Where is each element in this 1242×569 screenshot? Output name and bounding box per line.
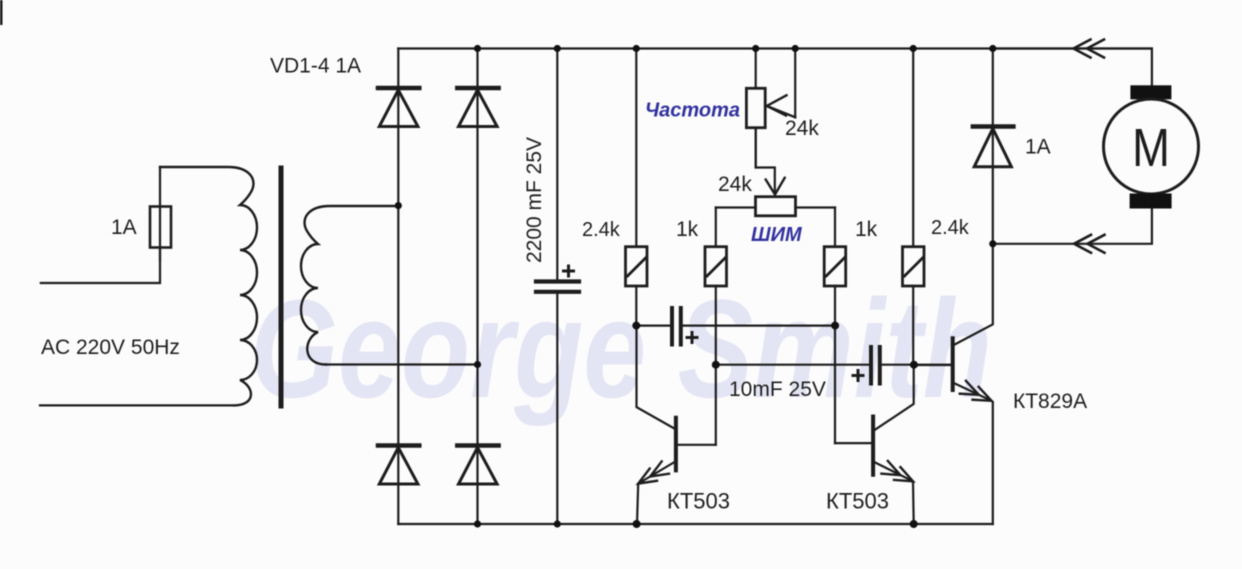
svg-text:Частота: Частота — [645, 100, 740, 122]
wire row1 cross-coupling — [636, 325, 670, 327]
svg-text:24k: 24k — [785, 117, 819, 140]
wire RP2 right lead — [796, 206, 836, 208]
diode VD3 — [378, 446, 419, 485]
wire RP2 left lead — [716, 206, 756, 208]
svg-text:2.4k: 2.4k — [931, 217, 970, 239]
plus sign C2 — [686, 331, 699, 344]
wire bottom rail — [398, 523, 993, 525]
svg-text:1k: 1k — [855, 218, 878, 241]
svg-text:КТ829А: КТ829А — [1013, 390, 1087, 413]
diode VD1 — [378, 88, 419, 127]
wire secondary bottom lead — [326, 363, 478, 365]
potentiometer RP1 wiper arrow — [767, 49, 795, 118]
resistor R4 2.4k — [903, 49, 925, 366]
svg-text:КТ503: КТ503 — [826, 489, 889, 514]
svg-text:1A: 1A — [1025, 136, 1051, 159]
fuse FU1 — [150, 167, 171, 260]
resistor R3 1k — [824, 208, 846, 444]
potentiometer RP2 SHIM body — [756, 197, 796, 216]
svg-text:VD1-4 1A: VD1-4 1A — [270, 55, 361, 78]
plus sign C3 — [852, 369, 865, 382]
svg-text:10mF 25V: 10mF 25V — [729, 378, 826, 401]
capacitor C3 plates — [871, 347, 880, 384]
diode VD2 — [457, 88, 498, 127]
svg-text:2200 mF 25V: 2200 mF 25V — [523, 137, 546, 263]
resistor R2 1k — [705, 208, 727, 445]
transformer T1 secondary winding — [301, 206, 397, 365]
wire top positive rail — [398, 47, 1152, 49]
svg-text:2.4k: 2.4k — [582, 219, 621, 241]
transistor VT2 KT503 — [835, 365, 914, 524]
svg-text:M: M — [1132, 117, 1170, 178]
transformer T1 primary winding — [160, 167, 257, 405]
svg-text:1A: 1A — [111, 216, 137, 239]
diode VD5 flyback — [973, 49, 1014, 244]
plus sign C1 — [562, 265, 575, 278]
wire bridge right branch — [476, 49, 478, 525]
wire RP1 to RP2 with arrow — [756, 128, 785, 195]
wire bridge left branch — [397, 49, 399, 525]
edge tick top-left — [0, 0, 3, 25]
motor M1 — [1104, 85, 1199, 208]
transistor VT1 KT503 — [637, 326, 716, 524]
wire AC upper lead — [41, 207, 160, 284]
svg-text:1k: 1k — [676, 218, 699, 241]
capacitor C1 2200mF leads — [556, 49, 558, 280]
potentiometer RP1 Chastota body — [746, 49, 765, 168]
wire row2 cross-coupling — [716, 364, 869, 366]
diode VD4 — [457, 446, 498, 485]
capacitor C1 plates — [536, 282, 579, 292]
wire motor top lead with connector chevrons — [993, 40, 1152, 86]
transistor VT3 KT829A — [914, 244, 993, 524]
svg-text:24k: 24k — [718, 173, 752, 196]
svg-text:AC 220V 50Hz: AC 220V 50Hz — [41, 336, 180, 359]
capacitor C2 plates — [672, 308, 681, 345]
transformer T1 core — [279, 168, 284, 406]
resistor R1 2.4k — [626, 49, 648, 326]
wire motor bottom lead with connector chevrons — [993, 208, 1152, 253]
svg-text:ШИМ: ШИМ — [751, 224, 803, 246]
wire AC lower lead — [40, 404, 232, 406]
svg-text:КТ503: КТ503 — [667, 489, 730, 514]
